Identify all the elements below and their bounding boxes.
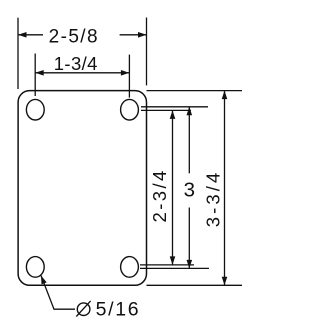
dim line 2-3/4 (x=172.5) — [172, 110, 174, 265]
arrow 3 bottom — [187, 260, 193, 269]
extension line hole-left (x=34.9) — [34, 54, 36, 97]
bottom edge extension — [147, 284, 243, 286]
arrow 1-3/4 left — [35, 70, 44, 76]
hole bottom-left — [26, 257, 44, 278]
hole bottom-right — [121, 257, 139, 278]
diameter symbol slash — [76, 301, 90, 317]
arrow 1-3/4 right — [121, 70, 129, 76]
hole top-right — [121, 99, 139, 120]
svg-text:3: 3 — [184, 178, 195, 201]
svg-text:2-5/8: 2-5/8 — [49, 26, 99, 47]
arrow 3 top — [187, 107, 193, 116]
svg-text:3-3/4: 3-3/4 — [203, 170, 224, 228]
extension line hole-right (x=129) — [128, 55, 130, 98]
dim line 3-3/4 (x=224.5) — [224, 91, 226, 286]
diameter symbol circle — [77, 303, 90, 316]
hole top-left — [26, 99, 44, 120]
arrow 2-5/8 right — [138, 32, 147, 38]
svg-text:2-3/4: 2-3/4 — [149, 168, 170, 222]
arrow 3-3/4 bottom — [222, 277, 228, 286]
ext line top pair upper (y=106.8) — [141, 106, 208, 108]
ext line bottom pair lower (y=268.4) — [140, 267, 209, 269]
dim line 2-5/8 left segment — [18, 34, 43, 36]
plate outline — [18, 91, 146, 286]
svg-text:5/16: 5/16 — [96, 298, 141, 320]
arrow 3-3/4 top — [222, 91, 228, 100]
top edge extension — [147, 90, 243, 92]
ext line bottom pair upper (y=264.9) — [140, 264, 194, 266]
extension line right (x=146.5) — [146, 18, 148, 86]
leader arrowhead — [41, 276, 47, 285]
leader line 5/16 — [41, 276, 75, 310]
dim line 3 upper segment (x=189.3) — [188, 107, 190, 174]
arrow 2-3/4 bottom — [170, 256, 176, 265]
ext line top pair lower (y=110.4) — [141, 109, 191, 111]
dim line 3 lower segment — [188, 208, 190, 269]
svg-text:1-3/4: 1-3/4 — [54, 53, 98, 74]
dim line 2-5/8 right segment — [120, 34, 147, 36]
arrow 2-3/4 top — [170, 110, 176, 119]
extension line left (x=18) — [17, 18, 19, 89]
arrow 2-5/8 left — [18, 32, 27, 38]
dim line 1-3/4 — [35, 72, 129, 74]
